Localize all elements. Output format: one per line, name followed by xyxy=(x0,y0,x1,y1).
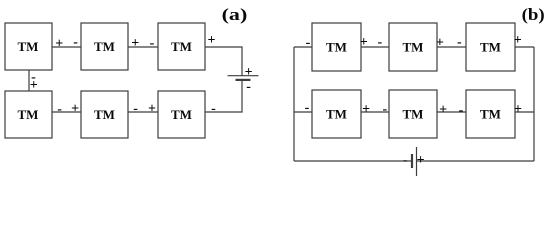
wire A1-A4 vertical xyxy=(28,70,30,91)
svg-text:-: - xyxy=(382,102,387,117)
wire B4-B5 xyxy=(361,111,389,113)
svg-text:TM: TM xyxy=(480,40,501,55)
svg-text:TM: TM xyxy=(403,40,424,55)
svg-text:+: + xyxy=(514,102,522,117)
svg-text:+: + xyxy=(362,102,370,117)
wire A3 to battery BA top xyxy=(205,47,242,76)
svg-text:+: + xyxy=(30,78,38,93)
wire B5-B6 xyxy=(437,111,466,113)
svg-text:+: + xyxy=(417,153,425,168)
svg-text:(b): (b) xyxy=(522,5,545,24)
svg-text:-: - xyxy=(459,103,464,118)
TM module B4 xyxy=(312,90,361,138)
svg-text:-: - xyxy=(306,35,311,50)
TM module B6 xyxy=(466,90,515,138)
svg-text:TM: TM xyxy=(94,39,115,54)
wire A1-A2 xyxy=(52,46,81,48)
svg-text:-: - xyxy=(73,35,78,50)
svg-text:+: + xyxy=(436,35,444,50)
svg-text:TM: TM xyxy=(94,107,115,122)
svg-text:-: - xyxy=(211,102,216,117)
svg-text:+: + xyxy=(148,101,156,116)
svg-text:+: + xyxy=(55,36,63,51)
battery BA positive plate xyxy=(228,75,259,77)
wire battery BA bottom to A6 xyxy=(205,80,242,112)
right bus wire xyxy=(533,47,535,161)
wire A5-A6 xyxy=(128,111,158,113)
bottom bus wire right xyxy=(417,160,534,162)
svg-text:-: - xyxy=(305,101,310,116)
TM module A3 xyxy=(158,23,205,70)
svg-text:TM: TM xyxy=(171,39,192,54)
svg-text:+: + xyxy=(208,33,216,48)
TM module A6 xyxy=(158,91,205,138)
TM module B2 xyxy=(389,23,437,71)
svg-text:TM: TM xyxy=(18,107,39,122)
wire left bus to B4 xyxy=(294,111,312,113)
svg-text:+: + xyxy=(360,35,368,50)
svg-text:-: - xyxy=(57,102,62,117)
TM module B5 xyxy=(389,90,437,138)
wire A2-A3 xyxy=(128,46,158,48)
wire left bus to B1 xyxy=(294,46,312,48)
svg-text:+: + xyxy=(71,101,79,116)
TM module A1 xyxy=(5,23,52,70)
svg-text:-: - xyxy=(457,35,462,50)
TM module A2 xyxy=(81,23,128,70)
left bus wire xyxy=(293,47,295,161)
svg-text:+: + xyxy=(439,103,447,118)
svg-text:-: - xyxy=(377,35,382,50)
svg-text:-: - xyxy=(133,102,138,117)
wire B3 to right bus xyxy=(515,46,534,48)
svg-text:TM: TM xyxy=(326,40,347,55)
svg-text:-: - xyxy=(150,36,155,51)
svg-text:TM: TM xyxy=(171,107,192,122)
TM module B1 xyxy=(312,23,361,71)
TM module A4 xyxy=(5,91,52,138)
TM module A5 xyxy=(81,91,128,138)
wire A4-A5 xyxy=(52,111,81,113)
battery BB positive plate xyxy=(416,147,418,176)
wire B6 to right bus xyxy=(515,111,534,113)
svg-text:TM: TM xyxy=(326,107,347,122)
svg-text:TM: TM xyxy=(18,39,39,54)
battery BB negative plate xyxy=(411,154,413,168)
bottom bus wire left xyxy=(294,160,411,162)
svg-text:TM: TM xyxy=(480,107,501,122)
svg-text:(a): (a) xyxy=(222,5,248,24)
svg-text:TM: TM xyxy=(403,107,424,122)
wire B1-B2 xyxy=(361,46,389,48)
svg-text:-: - xyxy=(246,80,251,95)
wire B2-B3 xyxy=(437,46,466,48)
svg-text:+: + xyxy=(514,33,522,48)
svg-text:+: + xyxy=(245,65,253,80)
TM module B3 xyxy=(466,23,515,71)
battery BA negative plate xyxy=(236,79,251,81)
svg-text:+: + xyxy=(131,36,139,51)
svg-text:-: - xyxy=(403,153,408,168)
